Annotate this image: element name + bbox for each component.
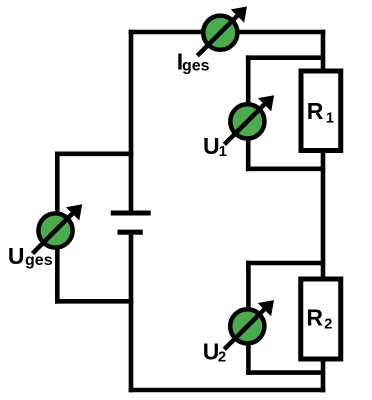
resistor R1 (301, 71, 341, 151)
wire Uges loop left vertical (55, 152, 60, 304)
battery source bottom plate (short) (118, 230, 143, 235)
wire Uges loop top (55, 152, 133, 157)
wire U2 loop left vertical (246, 261, 251, 375)
voltmeter U2 (224, 300, 274, 349)
ammeter Iges (197, 7, 247, 56)
wire left bus lower: battery bottom plate down to bottom wire (129, 235, 134, 392)
battery source top plate (long) (111, 210, 151, 215)
wire U2 loop bottom (246, 370, 323, 375)
wire U2 loop top (246, 261, 323, 266)
wire U1 loop top (246, 55, 323, 60)
wire right bus middle: R1 bottom to R2 top (321, 152, 326, 278)
wire right bus lower: R2 bottom to bottom wire (321, 360, 326, 392)
voltmeter U1 (224, 95, 274, 144)
wire right bus upper: top corner down to R1 (321, 30, 326, 70)
wire Uges loop bottom (55, 299, 133, 304)
wire U1 loop bottom (246, 167, 323, 172)
wire bottom: left bus to right bus (129, 388, 326, 393)
resistor R2 (301, 279, 341, 359)
wire U1 loop left vertical (246, 55, 251, 171)
wire left bus upper: top corner down to battery top plate (129, 30, 134, 211)
wire top: left bus corner to right bus corner (129, 30, 326, 35)
voltmeter Uges (33, 204, 83, 253)
